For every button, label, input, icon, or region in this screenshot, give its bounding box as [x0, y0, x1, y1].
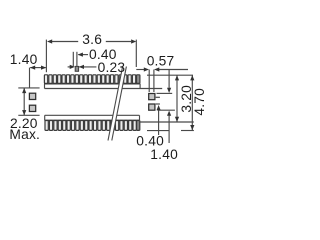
break line left	[108, 67, 123, 141]
svg-text:1.40: 1.40	[150, 147, 178, 162]
tick: top edge of right lower pad	[156, 103, 160, 105]
left fitting pad upper	[29, 93, 35, 99]
svg-text:3.6: 3.6	[82, 32, 102, 47]
body outline bottom edge	[45, 115, 140, 130]
body outline top edge	[45, 84, 163, 89]
dimension 0.23 leader arrows	[68, 65, 97, 69]
dimension 0.40 leader (top)	[78, 53, 88, 57]
svg-text:1.40: 1.40	[10, 52, 38, 67]
lower pad row end pad (gray)	[137, 121, 140, 131]
highlighted pad 0.23	[75, 66, 78, 71]
left fitting pad lower	[29, 105, 35, 111]
fitting pads outer-span extension lines	[157, 93, 175, 110]
0.40 bottom leader (points at pad tick)	[157, 105, 161, 135]
upper pad row end pad (gray)	[137, 75, 140, 84]
dimension 3.6 (top)	[46, 39, 136, 72]
inner-row extension line (right)	[140, 121, 194, 123]
svg-text:0.57: 0.57	[147, 53, 175, 68]
break band	[108, 67, 126, 141]
dimension 0.57 (right end pads)	[136, 67, 188, 92]
right fitting pad lower	[149, 104, 155, 110]
svg-text:4.70: 4.70	[192, 88, 207, 116]
svg-text:0.23: 0.23	[98, 60, 126, 75]
pitch reference lines (0.40 top)	[73, 52, 77, 67]
break line right	[112, 67, 127, 141]
right fitting pad upper	[149, 94, 155, 100]
dimension 3.20	[175, 75, 179, 122]
extension lines for 2.20 (left)	[18, 88, 39, 115]
teeth-bottom extension line (left part)	[147, 130, 169, 132]
svg-text:Max.: Max.	[9, 127, 40, 142]
tick: centerline of right upper pad	[156, 96, 160, 98]
teeth-bottom extension line (right part)	[181, 130, 194, 132]
dimension 2.20 Max (left)	[22, 88, 26, 115]
top extension line for 3.20/4.70	[147, 74, 193, 76]
fitting pads outer-span dimension (labelled 1.40 below)	[167, 70, 171, 144]
dimension 1.40 (top left)	[30, 66, 47, 88]
dimension 4.70	[190, 75, 194, 130]
lower pad row (hatched comb, teeth down)	[44, 120, 139, 130]
upper pad row (hatched comb, teeth up)	[44, 75, 140, 84]
